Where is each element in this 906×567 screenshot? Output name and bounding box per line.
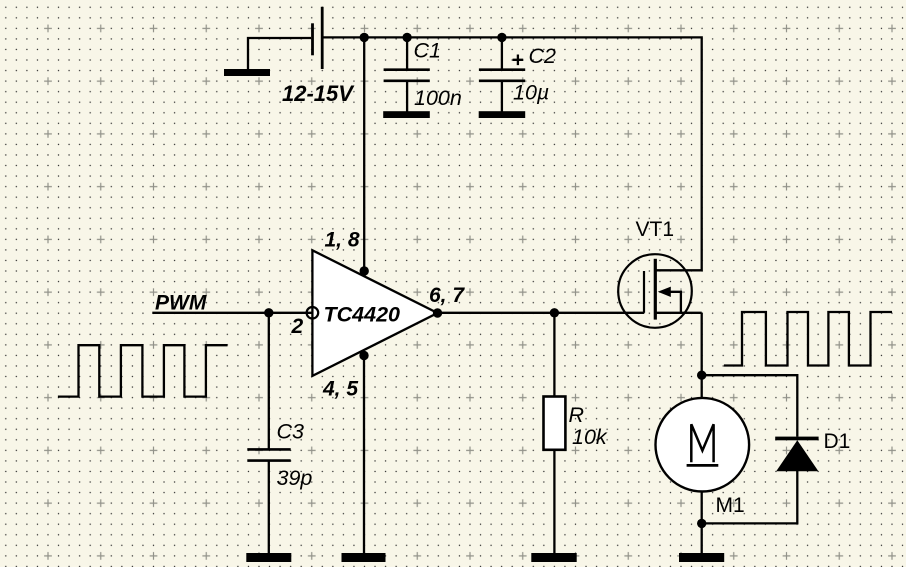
- svg-text:39p: 39p: [277, 466, 313, 490]
- svg-text:10µ: 10µ: [513, 81, 549, 105]
- svg-text:1, 8: 1, 8: [325, 229, 360, 252]
- svg-text:6, 7: 6, 7: [429, 284, 465, 307]
- svg-text:12-15V: 12-15V: [282, 81, 355, 106]
- svg-text:TC4420: TC4420: [324, 303, 401, 327]
- svg-text:PWM: PWM: [155, 292, 207, 315]
- svg-text:4, 5: 4, 5: [322, 378, 358, 401]
- svg-text:C3: C3: [277, 420, 305, 444]
- svg-text:10k: 10k: [572, 425, 608, 449]
- svg-text:C1: C1: [414, 39, 441, 63]
- svg-text:VT1: VT1: [636, 218, 675, 241]
- svg-text:C2: C2: [529, 44, 557, 68]
- svg-text:100n: 100n: [414, 86, 462, 110]
- svg-text:D1: D1: [824, 430, 851, 453]
- svg-text:2: 2: [291, 315, 304, 338]
- svg-text:R: R: [569, 403, 585, 427]
- svg-text:M1: M1: [716, 494, 745, 517]
